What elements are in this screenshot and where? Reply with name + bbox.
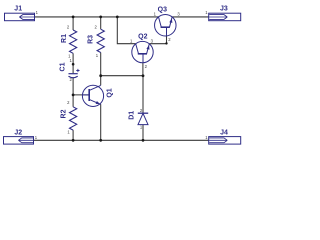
connector J1: [5, 13, 35, 21]
svg-text:Q3: Q3: [158, 7, 167, 14]
svg-text:J2: J2: [14, 129, 22, 136]
wire top rail right of Q3: [172, 16, 209, 18]
node B: [142, 74, 145, 77]
connector J3: [209, 13, 241, 21]
Q3 emitter arrow: [169, 18, 172, 23]
diode D1: [138, 113, 148, 124]
wire R3 column top: [100, 17, 102, 29]
node dot bottom rail D1: [142, 139, 145, 142]
transistor Q2: [132, 41, 153, 62]
node dot Q3 base corner: [165, 42, 167, 44]
Q1 emitter arrow: [96, 101, 101, 104]
wire R2 bottom to rail: [72, 130, 74, 140]
svg-text:R3: R3: [88, 35, 95, 44]
resistor R1: [70, 30, 77, 53]
connector J2: [4, 137, 34, 145]
wire R3 bottom to Q1 collector: [100, 53, 102, 86]
transistor Q1: [82, 85, 103, 106]
wire bottom rail: [33, 139, 208, 141]
svg-text:Q1: Q1: [106, 88, 113, 97]
svg-text:D1: D1: [129, 111, 136, 120]
wire junction B to D1: [142, 76, 144, 113]
Q2 emitter arrow: [146, 45, 149, 50]
svg-text:J1: J1: [14, 6, 22, 13]
wire R1 bottom to C1: [72, 53, 74, 73]
wire base of Q1: [73, 94, 89, 96]
transistor Q3: [155, 14, 177, 36]
svg-text:J4: J4: [220, 130, 228, 137]
capacitor C1: [69, 74, 78, 78]
wire C1 bottom to junction C: [72, 78, 74, 95]
wire Q2 right lead to Q3 base corner: [149, 36, 166, 44]
wire D1 to rail: [142, 125, 144, 141]
node C: [72, 94, 75, 97]
C1 plus sign: [76, 69, 79, 72]
svg-text:R1: R1: [61, 34, 68, 43]
node dot top rail Q2 branch: [116, 16, 119, 19]
node dot bottom rail Q1 emitter: [99, 139, 102, 142]
wire junction C to R2: [72, 95, 74, 107]
node dot top rail R1: [72, 16, 75, 19]
wire junction A to junction B: [101, 75, 143, 77]
svg-text:J3: J3: [220, 6, 228, 13]
svg-text:Q2: Q2: [138, 34, 147, 41]
wire R1 column: [72, 17, 74, 30]
node dot top rail R3: [99, 16, 102, 19]
svg-text:R2: R2: [61, 109, 68, 118]
wire rail to Q2 left lead: [117, 17, 135, 44]
node dot bottom rail R2: [72, 139, 75, 142]
wire Q1 emitter to rail: [100, 104, 102, 140]
svg-text:C1: C1: [59, 62, 66, 71]
node A: [99, 74, 102, 77]
wire top rail left of Q3: [35, 16, 159, 18]
resistor R3: [97, 29, 104, 52]
resistor R2: [70, 107, 77, 130]
node dot R1-C1: [72, 63, 75, 66]
wire Q2 bottom to junction B: [142, 63, 144, 76]
connector J4: [209, 137, 241, 145]
